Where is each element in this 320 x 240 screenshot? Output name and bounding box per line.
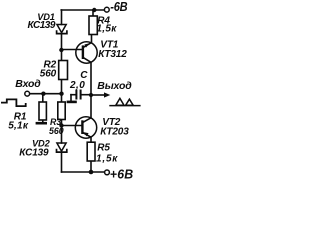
svg-text:Выход: Выход <box>97 80 132 92</box>
svg-text:R5: R5 <box>97 142 110 153</box>
svg-text:-6В: -6В <box>110 0 128 14</box>
svg-text:Вход: Вход <box>15 78 41 90</box>
svg-text:КТ312: КТ312 <box>98 49 127 60</box>
svg-text:+6В: +6В <box>110 167 134 181</box>
svg-text:560: 560 <box>40 68 57 79</box>
svg-text:1,5к: 1,5к <box>96 153 118 164</box>
svg-text:КС139: КС139 <box>28 20 56 31</box>
svg-text:2,0: 2,0 <box>69 80 85 91</box>
svg-text:1,5к: 1,5к <box>96 24 117 35</box>
svg-text:КС139: КС139 <box>19 147 49 158</box>
svg-text:5,1к: 5,1к <box>8 120 29 131</box>
svg-text:КТ203: КТ203 <box>100 126 129 137</box>
svg-text:560: 560 <box>49 126 64 136</box>
